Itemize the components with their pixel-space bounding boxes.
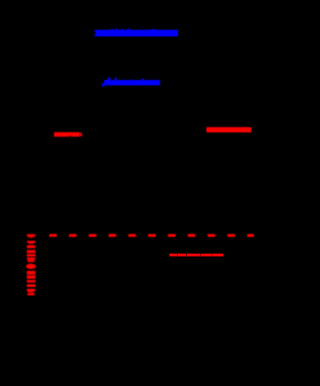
blue title text line 1: [94, 29, 178, 37]
red thick line segment right (legend key): [206, 127, 251, 132]
notch in red annotation text: [70, 136, 71, 137]
red small event-marker strip: [169, 254, 223, 257]
red rotated axis label text column: [26, 234, 36, 295]
red annotation text left: [54, 132, 82, 137]
red dashed threshold line: [49, 234, 254, 237]
blue title text line 2: [102, 77, 160, 86]
